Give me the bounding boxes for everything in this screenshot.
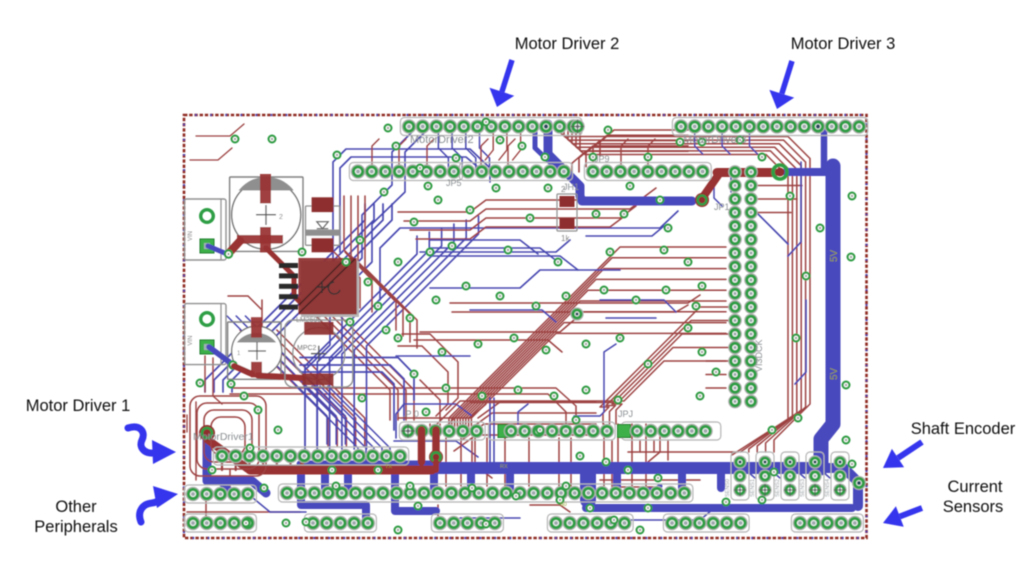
svg-text:MPC2: MPC2: [297, 345, 317, 352]
svg-text:5V: 5V: [829, 249, 840, 262]
svg-text:JPJ: JPJ: [618, 409, 633, 419]
svg-text:S0: S0: [560, 502, 567, 508]
svg-text:MotorDriver1: MotorDriver1: [193, 431, 254, 443]
svg-text:JP1: JP1: [714, 202, 730, 212]
svg-text:RX: RX: [500, 464, 508, 470]
svg-text:JH1: JH1: [563, 182, 579, 192]
svg-text:MotorDriver2: MotorDriver2: [410, 134, 474, 146]
svg-text:VIN: VIN: [188, 231, 194, 241]
svg-text:Shaft Encoder: Shaft Encoder: [911, 420, 1016, 438]
svg-text:.P 0: .P 0: [403, 409, 419, 419]
svg-text:2: 2: [279, 214, 283, 221]
svg-text:Current: Current: [947, 478, 1002, 496]
svg-text:SENS3: SENS3: [800, 479, 806, 497]
svg-text:SENS0: SENS0: [725, 479, 731, 497]
svg-text:SENS4: SENS4: [825, 479, 831, 497]
svg-text:Peripherals: Peripherals: [34, 518, 117, 536]
svg-text:5V: 5V: [829, 367, 840, 380]
svg-text:SENS1: SENS1: [750, 479, 756, 497]
svg-text:TX: TX: [385, 464, 392, 470]
svg-text:Sensors: Sensors: [943, 498, 1004, 516]
svg-text:JP5: JP5: [446, 178, 462, 188]
svg-text:SENS2: SENS2: [775, 479, 781, 497]
svg-text:VI3DCK: VI3DCK: [754, 339, 764, 372]
svg-text:VIN: VIN: [188, 336, 194, 346]
svg-text:1k: 1k: [561, 234, 570, 243]
svg-text:Motor Driver 2: Motor Driver 2: [515, 35, 620, 53]
svg-text:Motor Driver 3: Motor Driver 3: [791, 35, 896, 53]
svg-text:Other: Other: [55, 498, 97, 516]
svg-text:Motor Driver 1: Motor Driver 1: [26, 397, 131, 415]
svg-text:MotorDriver3: MotorDriver3: [683, 134, 747, 146]
svg-text:JP9: JP9: [594, 154, 610, 164]
